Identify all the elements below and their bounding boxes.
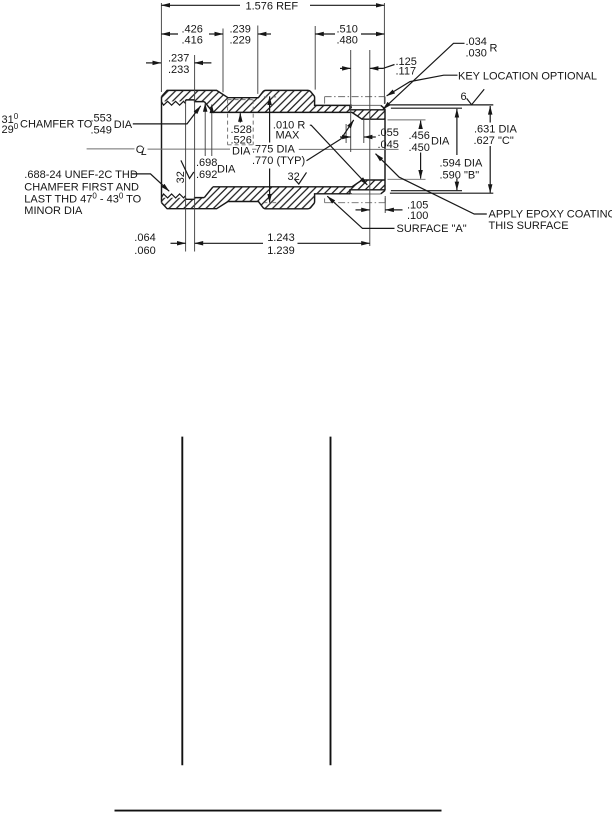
svg-text:.030: .030 (466, 48, 487, 60)
svg-text:.480: .480 (337, 35, 358, 47)
svg-text:.627 "C": .627 "C" (474, 135, 514, 147)
svg-text:.045: .045 (378, 139, 399, 151)
svg-text:.117: .117 (396, 66, 417, 78)
svg-text:CHAMFER TO: CHAMFER TO (20, 119, 93, 131)
svg-text:.416: .416 (182, 35, 203, 47)
svg-text:.775 DIA: .775 DIA (252, 144, 295, 156)
svg-text:.594 DIA: .594 DIA (440, 157, 483, 169)
svg-text:1.576 REF: 1.576 REF (246, 1, 299, 13)
svg-text:DIA: DIA (431, 135, 450, 147)
svg-text:.456: .456 (409, 130, 430, 142)
svg-text:MINOR DIA: MINOR DIA (24, 205, 83, 217)
svg-text:.233: .233 (168, 64, 189, 76)
svg-text:LAST THD 470 - 430 TO: LAST THD 470 - 430 TO (24, 191, 141, 205)
svg-text:.688-24 UNEF-2C THD: .688-24 UNEF-2C THD (24, 169, 138, 181)
svg-text:.064: .064 (134, 232, 155, 244)
svg-text:THIS SURFACE: THIS SURFACE (489, 220, 569, 232)
svg-text:.770 (TYP): .770 (TYP) (252, 155, 305, 167)
svg-text:.553: .553 (91, 113, 112, 125)
svg-text:32: 32 (288, 171, 300, 183)
svg-text:.549: .549 (91, 124, 112, 136)
svg-text:DIA: DIA (114, 119, 133, 131)
svg-text:32: 32 (175, 171, 187, 183)
svg-text:.698: .698 (196, 157, 217, 169)
svg-text:.426: .426 (182, 23, 203, 35)
svg-text:6: 6 (461, 91, 467, 103)
svg-text:APPLY EPOXY COATING: APPLY EPOXY COATING (489, 208, 612, 220)
svg-text:R: R (490, 42, 498, 54)
svg-text:.239: .239 (230, 23, 251, 35)
svg-text:.450: .450 (409, 142, 430, 154)
svg-text:.590 "B": .590 "B" (440, 169, 480, 181)
svg-text:DIA: DIA (232, 146, 251, 158)
svg-text:MAX: MAX (276, 129, 301, 141)
svg-text:.055: .055 (378, 127, 399, 139)
svg-text:.229: .229 (230, 35, 251, 47)
svg-text:KEY LOCATION OPTIONAL: KEY LOCATION OPTIONAL (458, 71, 597, 83)
svg-text:.237: .237 (168, 53, 189, 65)
svg-text:1.243: 1.243 (267, 232, 295, 244)
svg-text:1.239: 1.239 (267, 245, 295, 257)
svg-text:DIA: DIA (217, 164, 236, 176)
svg-text:.034: .034 (466, 36, 487, 48)
svg-text:.510: .510 (337, 23, 358, 35)
svg-text:SURFACE "A": SURFACE "A" (397, 223, 467, 235)
svg-text:.692: .692 (196, 169, 217, 181)
svg-text:.631 DIA: .631 DIA (474, 123, 517, 135)
svg-text:.100: .100 (407, 210, 428, 222)
svg-text:.060: .060 (134, 245, 155, 257)
